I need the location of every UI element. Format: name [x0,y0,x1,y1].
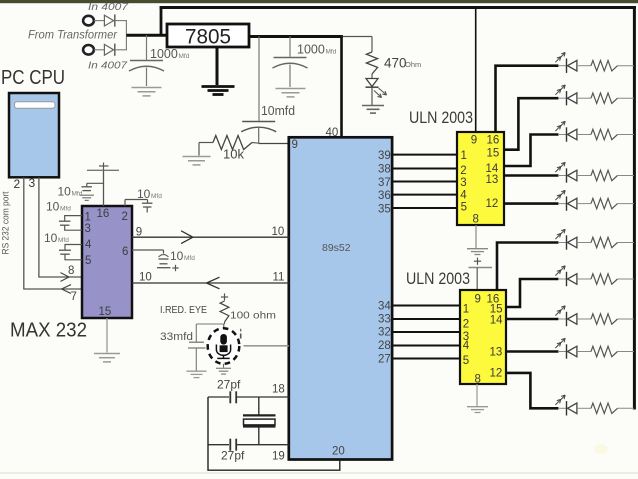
resistor R6 [591,170,618,180]
svg-text:27: 27 [378,353,391,365]
svg-text:15: 15 [487,148,500,160]
svg-text:MAX 232: MAX 232 [10,319,87,342]
svg-text:13: 13 [490,347,503,359]
ground MAX232 pin15 [94,353,120,355]
capacitor C2 1000Mfd [289,37,291,57]
terminal T2 from transformer [83,45,94,55]
svg-text:5: 5 [463,355,469,367]
wire top +V bus [160,6,636,9]
svg-text:34: 34 [378,300,391,312]
svg-text:8: 8 [473,214,479,226]
wire MCU pin 27 to ULN2 [392,358,460,360]
wire MCU pin 34 to ULN2 [392,305,460,307]
ground ULN1 pin 8 [467,248,488,250]
wire LED4 to resistor R6 [577,175,591,177]
diode D1 In4007 [104,15,113,26]
wire ULN1 pin15 to LED row2 [504,98,559,150]
driver U4 ULN2003 (lower) [460,290,506,384]
svg-text:ULN 2003: ULN 2003 [409,109,473,127]
svg-text:18: 18 [272,384,285,396]
capacitor C6 10Mfd (pins 1-3) [65,216,82,221]
wire MCU pin19 to crystal [208,444,229,446]
wire MCU pin 28 to ULN2 [392,345,460,347]
svg-text:37: 37 [378,177,391,189]
plus C8 [172,267,178,269]
wire T1 to D1 [94,20,104,22]
wire PC pin2 to MAX232 pin 7 [24,177,82,289]
stray dash marks right of mic [240,329,242,332]
resistor R13 100 ohm [220,301,229,322]
wire D2 to junction [115,49,127,51]
wire ULN2 pin12 to LED row10 [506,373,559,408]
resistor R2 470 Ohm [371,37,373,53]
svg-text:Mfd: Mfd [184,255,195,262]
svg-text:1: 1 [463,304,469,316]
LED D7 row4 [558,175,567,177]
svg-text:2: 2 [122,211,128,223]
ground mic [216,367,231,369]
svg-text:16: 16 [487,135,500,147]
capacitor C1 1000Mfd [146,35,148,60]
wire ULN2 pin16 to LED row6 [497,243,559,291]
MCU U1 89s52 [289,137,392,459]
svg-text:8: 8 [475,373,481,385]
svg-text:19: 19 [272,451,285,463]
terminal T1 from transformer [83,16,94,26]
wire MCU pin 33 to ULN2 [392,318,460,320]
wire ULN1 pin 8 to ground [475,225,477,248]
wire LED2 to resistor R4 [577,97,591,99]
svg-text:ULN 2003: ULN 2003 [406,270,470,288]
svg-text:Mfd: Mfd [179,53,190,60]
svg-text:20: 20 [332,446,345,458]
wire ULN2 pin14 to LED row8 [506,318,559,321]
wire V+ to MAX232 pin16 [103,170,105,206]
wire MCU pin 32 to ULN2 [392,331,460,333]
svg-text:38: 38 [378,163,391,175]
ground 7805 [216,47,219,85]
LED D9 row6 [558,242,567,244]
svg-text:1: 1 [85,212,91,224]
supply plate above MAX232 [87,169,119,171]
wire crystal ground rail [208,397,340,470]
LED D5 row2 [558,97,567,99]
wire T2 to D2 [94,49,104,51]
svg-text:10mfd: 10mfd [261,104,295,118]
svg-text:2: 2 [460,165,466,177]
wire 33mfd junction [196,323,224,325]
resistor R5 [591,129,618,139]
svg-text:7: 7 [71,291,77,303]
svg-text:3: 3 [460,177,466,189]
svg-text:6: 6 [122,246,128,258]
svg-text:33mfd: 33mfd [160,331,193,343]
wire resistor R8 to +V bus [618,242,635,244]
wire resistor R12 to +V bus [618,407,635,409]
svg-text:10: 10 [272,226,285,238]
wire LED5 to resistor R7 [577,203,591,205]
wire ULN1 pin13 to LED row4 [504,174,559,177]
svg-text:1000: 1000 [150,47,178,61]
svg-text:3: 3 [85,223,91,235]
ground R1 10k [183,156,211,158]
capacitor C7 10Mfd (pins 4-5) [65,245,82,250]
svg-text:Mfd: Mfd [151,193,162,200]
ground C4 [79,194,94,196]
LED D12 row9 [558,351,567,353]
wire resistor R7 to +V bus [618,203,635,205]
wire resistor R6 to +V bus [618,175,635,177]
svg-text:39: 39 [378,150,391,162]
LED D11 row8 [558,318,567,320]
svg-text:Ohm: Ohm [405,60,421,69]
supply plate lower ULN [469,267,493,269]
svg-text:2: 2 [463,319,469,331]
capacitor C3 10mfd reset [258,37,260,121]
regulator U5 7805 [167,24,249,47]
svg-text:Mfd: Mfd [326,48,337,55]
wire right +V bus [633,6,636,410]
ground D3 [362,105,384,107]
svg-text:Mfd: Mfd [58,237,69,244]
wire MCU pin18 to crystal [208,396,229,398]
svg-text:4: 4 [463,340,470,352]
svg-text:8: 8 [68,265,74,277]
resistor R7 [591,198,618,208]
resistor R10 [591,314,618,324]
resistor R9 [591,274,618,284]
svg-text:89s52: 89s52 [322,242,351,254]
svg-text:10: 10 [58,185,72,199]
svg-text:15: 15 [99,306,112,318]
wire MCU pin 39 to ULN1 pin 1 [392,154,457,156]
wire pin40 to +5V [340,37,343,139]
svg-text:100 ohm: 100 ohm [230,310,276,322]
svg-text:27pf: 27pf [221,449,245,463]
LED D8 row5 [558,203,567,205]
wire LED3 to resistor R5 [577,134,591,136]
resistor R12 [591,403,618,413]
wire mic output to MCU (gray) [244,345,289,347]
svg-text:470: 470 [384,56,407,71]
wire MCU pin 35 to ULN1 pin 5 [392,207,457,209]
svg-text:Mfd: Mfd [60,205,71,212]
svg-text:27pf: 27pf [217,378,241,392]
svg-text:1000: 1000 [297,43,325,57]
wire resistor R11 to +V bus [618,351,635,353]
crystal X1 [258,397,260,415]
svg-text:16: 16 [97,208,110,220]
wire MCU pin 37 to ULN1 pin 3 [392,181,457,183]
svg-text:9: 9 [292,139,298,151]
LED D4 row1 [558,65,567,67]
wire LED9 to resistor R11 [577,351,591,353]
IC U2 MAX232 [82,206,132,318]
svg-text:12: 12 [486,198,499,210]
wire resistor R3 to +V bus [618,65,635,67]
wire resistor R10 to +V bus [618,318,635,320]
wire MCU pin11 to MAX232 pin10 [132,282,289,284]
wire D1 to junction [115,20,127,22]
svg-text:10k: 10k [223,147,244,162]
plus supply lower ULN [474,260,481,262]
wire LED7 to resistor R9 [577,278,591,280]
wire ULN2 pin15 to LED row7 [506,279,559,307]
wire plate to ULN2 pin 9 [476,268,478,291]
capacitor C8 10Mfd (pin6) [132,249,164,251]
LED D6 row3 [558,134,567,136]
faint yellow dot bottom right [594,444,608,454]
svg-text:RS 232 com port: RS 232 com port [1,191,11,254]
svg-text:5: 5 [85,255,91,267]
svg-text:11: 11 [273,272,285,284]
LED D10 row7 [558,278,567,280]
svg-text:36: 36 [378,190,391,202]
svg-text:9: 9 [136,226,142,238]
svg-text:7805: 7805 [185,25,231,49]
svg-text:5: 5 [461,202,467,214]
svg-text:40: 40 [326,127,339,139]
diode D2 In4007 [104,44,113,55]
svg-text:14: 14 [490,315,503,327]
wire resistor R9 to +V bus [618,278,635,280]
resistor R8 [591,237,618,247]
capacitor C5 10Mfd (pin2) [124,200,126,207]
wire MAX232 pin9 to MCU pin10 [132,236,289,238]
svg-text:PC CPU: PC CPU [1,66,65,89]
ground C1 [132,87,162,89]
IR receiver eye (mic symbol) [208,328,240,364]
svg-text:1: 1 [461,150,467,162]
wire 7805 input tap to top bus [160,6,163,35]
wire ULN2 pin 8 to ground [476,384,478,406]
capacitor C4 10Mfd (pin16) [87,182,104,184]
wire 7805 output [249,35,343,38]
capacitor C9 33mfd [195,324,197,342]
wire resistor R5 to +V bus [618,134,635,136]
wire LED8 to resistor R10 [577,318,591,320]
svg-text:4: 4 [85,239,92,251]
svg-text:10: 10 [44,231,58,245]
wire MCU pin 38 to ULN1 pin 2 [392,168,457,170]
capacitor C10 27pf [229,391,231,403]
plus V+ above MAX232 [103,163,105,171]
svg-text:In 4007: In 4007 [88,60,128,72]
LED D3 power indicator [366,79,378,87]
wire reset junction to pin 9 [259,143,289,145]
svg-text:10: 10 [137,187,151,201]
svg-text:15: 15 [490,304,503,316]
svg-text:3: 3 [29,176,36,190]
svg-text:33: 33 [378,313,391,325]
LED D13 row10 [558,407,567,409]
wire LED6 to resistor R8 [577,242,591,244]
wire ULN2 pin13 to LED row9 [506,350,559,353]
wire PC pin3 to MAX232 pin 8 [39,177,82,277]
plus 100ohm [221,296,228,298]
ground ULN2 pin 8 [467,406,488,408]
svg-text:28: 28 [378,340,391,352]
wire 7805 output thin extension [342,36,373,38]
svg-text:2: 2 [14,177,21,191]
wire resistor R4 to +V bus [618,97,635,99]
resistor R4 [591,93,618,103]
wire LED1 to resistor R3 [577,65,591,67]
resistor R11 [591,346,618,356]
svg-text:In 4007: In 4007 [88,2,129,13]
wire MCU pin 36 to ULN1 pin 4 [392,194,457,196]
ground C9 [187,370,207,372]
ground C2 [276,88,306,90]
resistor R3 [591,61,618,71]
wire rectifier junction [125,21,127,50]
svg-text:13: 13 [486,174,499,186]
svg-text:10: 10 [139,272,152,284]
driver U3 ULN2003 (upper) [457,132,504,225]
resistor R1 10k [199,142,213,144]
svg-text:I.RED. EYE: I.RED. EYE [160,304,207,316]
svg-text:12: 12 [490,368,503,380]
wire ULN1 pin14 to LED row3 [504,135,559,167]
svg-text:32: 32 [378,326,391,338]
capacitor C11 27pf [229,439,231,451]
svg-text:35: 35 [378,203,391,215]
svg-text:9: 9 [471,135,477,147]
svg-text:10: 10 [170,249,184,263]
wire mic to ground [223,364,225,368]
svg-text:9: 9 [475,294,481,306]
svg-text:4: 4 [460,189,467,201]
svg-text:10: 10 [46,200,60,214]
wire ULN1 pin16 to LED row1 [496,66,559,132]
PC CPU box [9,93,59,177]
svg-text:Mfd: Mfd [72,190,83,197]
wire ULN1 pin 9 to top bus [475,8,477,133]
wire ULN1 pin12 to LED row5 [504,202,559,205]
wire rectifier to 7805 input [126,34,167,37]
svg-text:From Transformer: From Transformer [28,30,118,42]
wire MAX232 pin15 to ground [106,318,108,353]
wire LED10 to resistor R12 [577,407,591,409]
